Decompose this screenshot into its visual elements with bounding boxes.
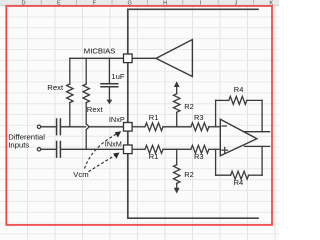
wire Rext1 top stub (69, 58, 71, 84)
ground arrow below 1uF (107, 100, 113, 105)
pin terminal INxM (124, 145, 133, 154)
wire INxM pin to R1 (132, 148, 145, 150)
resistor R4 (top) (229, 96, 247, 104)
capacitor C1 1uF (101, 83, 118, 85)
node input terminal P (circle) (37, 125, 40, 128)
wire R1 to R3 top (163, 126, 191, 128)
wire cap to INxP pin (with hop gap) (61, 126, 86, 128)
wire R2 bottom upper stub (176, 149, 178, 165)
op-amp U2 differential amplifier (220, 119, 257, 156)
wire feedback top horizontal left (216, 99, 229, 101)
wire cap to INxM pin (61, 148, 124, 150)
wire R3 to op-amp plus input (209, 148, 220, 150)
wire feedback bottom right vertical (261, 146, 263, 175)
arrow to ground (down) (174, 188, 180, 194)
wire input P to cap (41, 126, 56, 128)
wire MICBIAS rail (70, 57, 124, 59)
wire feedback top right vertical (261, 100, 263, 131)
resistor R4 (bottom) (231, 171, 249, 179)
resistor R2 (top) (174, 94, 180, 113)
wire MICBIAS pin to buffer (132, 57, 156, 59)
svg-text:R2: R2 (184, 170, 194, 179)
svg-text:Inputs: Inputs (8, 141, 29, 150)
resistor R2 (bottom) (174, 165, 180, 184)
wire 1uF to ground arrow (108, 87, 110, 100)
svg-text:R3: R3 (194, 152, 204, 161)
svg-text:Rext: Rext (87, 105, 104, 114)
svg-text:R2: R2 (184, 102, 194, 111)
resistor R3 (top) (191, 123, 209, 131)
svg-text:R4: R4 (234, 85, 244, 94)
capacitor Cin M (AC coupling) (56, 142, 58, 158)
wire feedback bottom horizontal right (249, 174, 263, 176)
svg-text:1uF: 1uF (111, 72, 125, 81)
wire Vcm dashed arrow to INxP pin (85, 134, 118, 169)
wire Rext2 hop to INxM line (85, 130, 87, 150)
wire R2 top upper stub (176, 87, 178, 94)
svg-text:R1: R1 (149, 113, 159, 122)
svg-text:INxM: INxM (105, 140, 122, 149)
svg-text:R1: R1 (149, 152, 159, 161)
svg-text:Rext: Rext (47, 83, 64, 92)
resistor R1 (bottom) (145, 145, 163, 153)
svg-text:R3: R3 (194, 113, 204, 122)
pin minus sign (222, 125, 226, 127)
wire feedback bottom left vertical (215, 149, 217, 175)
wire output minus line (245, 145, 270, 147)
wire R1 to R3 bottom (163, 148, 191, 150)
op-amp U1 MICBIAS buffer (156, 40, 192, 77)
wire feedback bottom horizontal left (216, 174, 231, 176)
wire INxP pin to R1 (132, 126, 145, 128)
wire input M to cap (41, 148, 56, 150)
resistor Rext (left) (67, 84, 73, 103)
svg-text:R4: R4 (234, 178, 244, 187)
wire R3 to op-amp minus input (209, 126, 220, 128)
wire R2 top lower stub (176, 112, 178, 127)
svg-text:Vcm: Vcm (73, 170, 88, 179)
svg-text:INxP: INxP (109, 115, 125, 124)
resistor R1 (top) (145, 123, 163, 131)
capacitor Cin P (AC coupling) (56, 119, 58, 135)
pin terminal MICBIAS (124, 54, 133, 63)
chip boundary (codec IC outline) (128, 9, 258, 218)
wire hop over INxP line (86, 124, 89, 130)
wire 1uF top stub (108, 58, 110, 83)
pin plus sign (222, 147, 228, 153)
wire Rext2 top stub (85, 58, 87, 84)
pin terminal INxP (124, 123, 133, 132)
resistor R3 (bottom) (191, 145, 209, 153)
wire Rext1 bottom to INxP line (69, 103, 71, 127)
arrow to supply (up) (174, 81, 180, 87)
svg-text:MICBIAS: MICBIAS (84, 46, 116, 55)
wire feedback top horizontal right (247, 99, 262, 101)
wire R2 bottom lower stub (176, 183, 178, 188)
resistor Rext (right) (83, 84, 89, 103)
node input terminal M (circle) (37, 148, 40, 151)
wire output plus line (244, 131, 270, 133)
wire Vcm dashed arrow to INxM pin (89, 154, 117, 171)
wire Rext2 bottom to hop (85, 103, 87, 124)
wire feedback top left vertical (215, 100, 217, 126)
